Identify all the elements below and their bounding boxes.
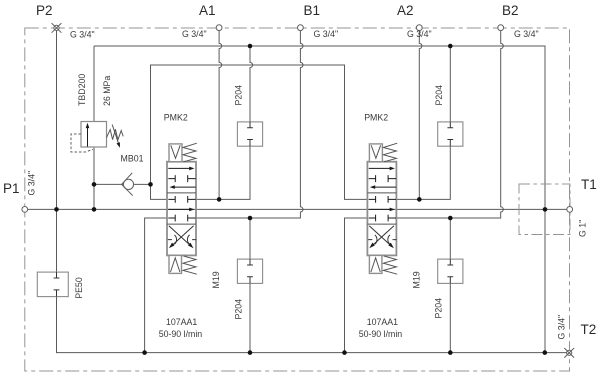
node: check valve inlet: [92, 182, 97, 187]
wire: P204 upper line section 1: [250, 46, 253, 122]
svg-text:B1: B1: [304, 3, 321, 18]
svg-text:107AA1: 107AA1: [166, 317, 197, 327]
svg-text:G 3/4": G 3/4": [70, 30, 95, 40]
port T1: [567, 207, 573, 213]
test coupling P204 upper section 2: [438, 122, 463, 146]
wire: P2 drop through PE50 to bottom bus and T2: [57, 30, 569, 352]
svg-text:50-90 l/min: 50-90 l/min: [159, 329, 203, 339]
wire: lower test point line section 1: [249, 218, 251, 353]
svg-text:T1: T1: [581, 177, 597, 192]
wire: lower test point line section 2: [449, 218, 451, 353]
node: bottom bus / section2 tank: [342, 350, 347, 355]
node: T1 junction: [543, 207, 548, 212]
svg-text:B2: B2: [502, 3, 519, 18]
node: A2 work junction: [417, 197, 422, 202]
svg-text:T2: T2: [581, 322, 597, 337]
node: bottom bus / lower test point 2: [448, 350, 453, 355]
wire: A2 port line with hop: [419, 31, 422, 200]
svg-text:G 3/4": G 3/4": [27, 171, 37, 196]
test coupling M19/P204 lower section 2: [438, 259, 463, 283]
wire: pump line P1 to T1 through both valves: [28, 208, 567, 210]
wire: A1 work line to test point: [196, 146, 250, 199]
port A1: [216, 25, 222, 31]
node: check valve outlet: [148, 182, 153, 187]
wire: relief valve drain to pump line: [93, 147, 95, 209]
svg-text:G 3/4": G 3/4": [514, 29, 539, 39]
test coupling M19/P204 lower section 1: [237, 259, 262, 283]
svg-text:A2: A2: [397, 3, 414, 18]
node: bottom bus / section1 tank: [142, 350, 147, 355]
node: tank bus / P204-2: [448, 44, 453, 49]
wire: parallel feed bus A-side linking both sections: [151, 65, 369, 199]
svg-text:M19: M19: [211, 271, 221, 288]
test coupling P204 upper section 1: [237, 122, 262, 146]
svg-text:TBD200: TBD200: [77, 74, 87, 106]
wire: check valve line: [94, 183, 151, 185]
node: bottom bus / T1 drop: [543, 350, 548, 355]
node: A1 work junction: [217, 197, 222, 202]
port B2: [498, 25, 504, 31]
svg-text:PE50: PE50: [74, 277, 84, 299]
test coupling PE50: [37, 272, 68, 297]
node: tank bus / P204-1: [248, 44, 253, 49]
svg-text:G 3/4": G 3/4": [557, 315, 567, 340]
svg-text:PMK2: PMK2: [364, 113, 388, 123]
node: B2 work junction: [448, 216, 453, 221]
svg-text:G 3/4": G 3/4": [182, 29, 207, 39]
svg-text:G 1": G 1": [578, 220, 588, 237]
node: B1 work junction: [248, 216, 253, 221]
svg-text:50-90 l/min: 50-90 l/min: [359, 329, 403, 339]
node: pump line / relief drain: [92, 207, 97, 212]
svg-text:26 MPa: 26 MPa: [102, 76, 112, 106]
directional valve PMK2 section 2: [367, 143, 397, 274]
svg-text:P204: P204: [434, 85, 444, 106]
T1 flange block boundary: [519, 184, 570, 235]
svg-text:A1: A1: [199, 3, 216, 18]
node: pump line / P2 drop: [54, 207, 59, 212]
wire: A2 work line to test point: [397, 146, 451, 199]
svg-text:107AA1: 107AA1: [367, 317, 398, 327]
wire: P204 upper line section 2: [449, 46, 451, 122]
svg-text:G 3/4": G 3/4": [407, 29, 432, 39]
svg-text:PMK2: PMK2: [164, 113, 188, 123]
wire: B1 port line with hops: [196, 31, 303, 218]
node: bottom bus / lower test point 1: [248, 350, 253, 355]
svg-text:P204: P204: [234, 85, 244, 106]
wire: relief valve top link: [93, 46, 95, 122]
wire: section1 tank stub to bottom bus: [145, 218, 167, 353]
svg-text:P204: P204: [434, 298, 444, 319]
port A2: [416, 25, 422, 31]
port P2 (plugged): [52, 23, 62, 33]
svg-text:M19: M19: [411, 271, 421, 288]
check valve MB01: [122, 173, 134, 196]
port P1: [22, 207, 28, 213]
wire: A1 port line with hops: [219, 31, 222, 200]
wire: tank gallery top bus from relief valve to T1 drop: [94, 46, 545, 353]
svg-text:P1: P1: [3, 181, 20, 196]
directional valve PMK2 section 1: [167, 143, 197, 274]
port T2 (plugged): [564, 348, 574, 358]
svg-text:G 3/4": G 3/4": [314, 29, 339, 39]
svg-text:P2: P2: [36, 3, 53, 18]
svg-text:P204: P204: [233, 299, 243, 320]
svg-text:MB01: MB01: [121, 154, 144, 164]
relief valve TBD200: [71, 122, 123, 153]
port B1: [298, 25, 304, 31]
wire: section2 tank stub to bottom bus: [345, 218, 369, 353]
wire: B2 port line with hops: [397, 31, 504, 218]
